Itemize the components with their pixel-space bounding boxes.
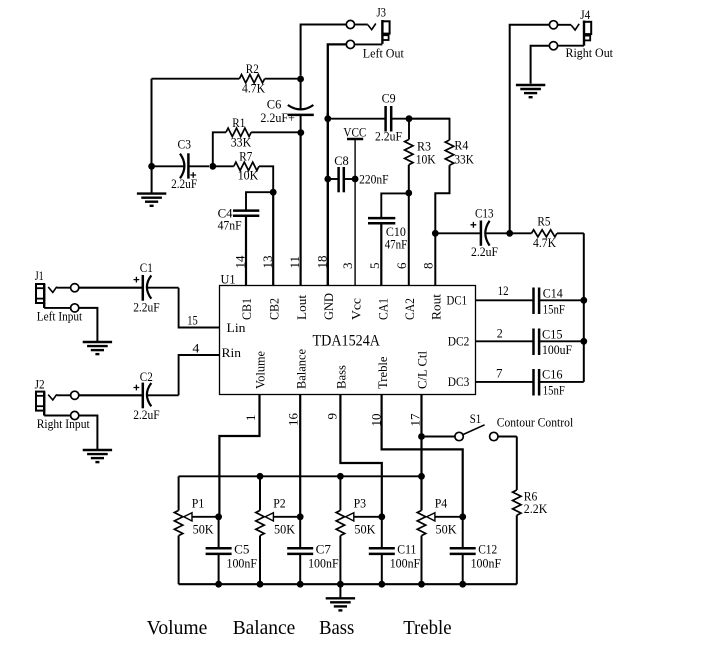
junction C13/R5/J4 tip	[506, 230, 513, 237]
label C13 polarity +	[471, 222, 477, 228]
svg-text:Vcc: Vcc	[348, 298, 363, 320]
svg-text:47nF: 47nF	[385, 237, 408, 252]
svg-text:100uF: 100uF	[542, 342, 572, 357]
svg-text:18: 18	[314, 256, 329, 269]
junction C15/right rail	[580, 338, 587, 345]
connector J2 (right input jack)	[36, 391, 79, 419]
svg-text:11: 11	[287, 256, 302, 269]
svg-text:50K: 50K	[354, 522, 376, 537]
svg-text:C12: C12	[478, 542, 497, 557]
junction P3 wiper/C11	[378, 513, 385, 520]
wire J4 tip down to C13/R5 node	[510, 25, 550, 234]
wire J1 sleeve to ground	[79, 308, 98, 342]
resistor R6	[513, 437, 521, 585]
resistor R2	[152, 75, 301, 83]
ground J4	[516, 85, 545, 97]
junction bottom rail/C11	[378, 581, 385, 588]
ground C3	[137, 194, 166, 206]
svg-text:Lin: Lin	[227, 320, 247, 335]
wire Lout column to pin 11	[300, 133, 302, 286]
svg-text:R2: R2	[246, 61, 259, 76]
svg-text:220nF: 220nF	[359, 172, 389, 187]
svg-text:R4: R4	[454, 138, 468, 153]
svg-text:47nF: 47nF	[218, 218, 242, 233]
svg-text:P2: P2	[273, 496, 286, 511]
svg-text:Treble: Treble	[403, 618, 451, 639]
svg-text:4.7K: 4.7K	[533, 235, 557, 250]
svg-text:2.2uF: 2.2uF	[171, 176, 197, 191]
svg-text:DC1: DC1	[447, 293, 468, 308]
svg-text:R7: R7	[239, 149, 252, 164]
wire pin 12 DC1	[476, 299, 534, 301]
junction bottom rail/P3/ground	[337, 581, 344, 588]
capacitor C11 (100nF)	[369, 517, 395, 584]
svg-text:C1: C1	[140, 260, 153, 275]
wire GND rail to pin 18	[327, 113, 329, 286]
power VCC	[347, 139, 363, 286]
junction GND rail / C9 line	[324, 115, 331, 122]
svg-text:17: 17	[408, 413, 423, 427]
junction bottom rail/C12	[459, 581, 466, 588]
capacitor C8 (220nF)	[328, 167, 355, 192]
svg-text:C16: C16	[542, 367, 563, 382]
capacitor C6 (2.2uF polarized)	[288, 79, 314, 133]
connector J3 (left output jack)	[346, 20, 389, 49]
svg-text:10: 10	[368, 414, 383, 427]
potentiometer P1	[174, 476, 218, 584]
svg-text:33K: 33K	[454, 152, 474, 167]
label C1 polarity +	[134, 277, 140, 283]
capacitor C5 (100nF)	[206, 517, 232, 584]
svg-text:C11: C11	[397, 542, 416, 557]
capacitor C7 (100nF)	[287, 517, 313, 584]
capacitor C4 (47nF)	[233, 211, 259, 286]
svg-text:Bass: Bass	[334, 365, 349, 389]
svg-text:2.2uF: 2.2uF	[375, 129, 402, 144]
svg-text:C13: C13	[475, 206, 494, 221]
svg-text:R5: R5	[537, 214, 550, 229]
junction Lout/R2/J3 tip	[297, 76, 304, 83]
capacitor C1 (2.2uF polarized)	[79, 275, 179, 301]
svg-text:C/L Ctl: C/L Ctl	[415, 351, 430, 389]
svg-text:R1: R1	[232, 115, 245, 130]
wire pot top rail	[179, 475, 422, 477]
svg-text:DC2: DC2	[448, 334, 470, 349]
svg-text:Bass: Bass	[319, 618, 354, 639]
svg-text:33K: 33K	[231, 135, 252, 150]
svg-text:50K: 50K	[436, 522, 458, 537]
svg-text:50K: 50K	[274, 522, 296, 537]
wire C3 to ground	[151, 166, 153, 193]
junction C9/R3 top	[406, 115, 413, 122]
svg-text:15: 15	[187, 313, 198, 328]
svg-text:Treble: Treble	[375, 356, 390, 389]
wire pin 2 DC2	[476, 340, 534, 342]
svg-text:DC3: DC3	[448, 374, 470, 389]
svg-text:C8: C8	[334, 153, 349, 168]
wire J3 tip to Lout node	[301, 25, 347, 76]
connector J4 (right output jack)	[549, 21, 591, 50]
svg-text:15nF: 15nF	[543, 302, 565, 317]
svg-text:100nF: 100nF	[308, 556, 339, 571]
svg-text:C9: C9	[382, 91, 396, 106]
wire pin 1 Volume to wiper column	[219, 395, 259, 517]
svg-text:Balance: Balance	[293, 349, 308, 389]
svg-text:100nF: 100nF	[390, 556, 421, 571]
svg-text:15nF: 15nF	[543, 383, 565, 398]
svg-text:5: 5	[367, 263, 382, 270]
wire pin 10 Treble to wiper column	[382, 395, 463, 517]
svg-text:1: 1	[243, 415, 258, 422]
svg-text:Volume: Volume	[253, 351, 268, 389]
svg-text:13: 13	[260, 256, 275, 269]
junction pin17/S1 branch	[418, 433, 425, 440]
svg-text:16: 16	[286, 413, 301, 427]
potentiometer P4	[417, 476, 462, 584]
capacitor C14 (15nF)	[534, 288, 584, 315]
svg-text:10K: 10K	[416, 152, 437, 167]
connector J1 (left input jack)	[36, 284, 79, 312]
capacitor C3 (2.2uF polarized)	[152, 153, 209, 178]
wire pot bottom rail	[179, 583, 517, 585]
resistor R3	[405, 119, 413, 286]
capacitor C12 (100nF)	[450, 517, 476, 584]
svg-text:Right Out: Right Out	[566, 45, 614, 60]
svg-text:4: 4	[192, 341, 200, 356]
svg-text:CA2: CA2	[402, 298, 417, 320]
svg-text:J1: J1	[35, 268, 44, 283]
svg-text:4.7K: 4.7K	[242, 81, 266, 96]
svg-text:CB2: CB2	[267, 298, 282, 320]
svg-text:6: 6	[394, 262, 409, 269]
svg-text:100nF: 100nF	[471, 556, 502, 571]
svg-text:TDA1524A: TDA1524A	[313, 332, 381, 349]
junction C3/ground/R2	[148, 163, 155, 170]
wire C1 to pin 15 Lin	[179, 288, 220, 328]
junction Rout column / C13 line	[432, 230, 439, 237]
svg-text:2.2uF+: 2.2uF+	[260, 110, 295, 125]
svg-text:J4: J4	[580, 7, 590, 22]
svg-text:CB1: CB1	[239, 298, 254, 320]
svg-text:C7: C7	[316, 542, 332, 557]
svg-text:C14: C14	[543, 286, 563, 301]
wire C2 to pin 4 Rin	[179, 355, 220, 395]
svg-text:2.2uF: 2.2uF	[133, 300, 160, 315]
junction bottom rail/P4	[418, 581, 425, 588]
capacitor C10 (47nF)	[368, 193, 409, 285]
svg-text:7: 7	[496, 366, 503, 381]
junction P2 wiper/C7	[297, 513, 304, 520]
svg-text:P4: P4	[435, 496, 448, 511]
resistor R1	[213, 128, 301, 166]
wire R2 left down to C3 node	[151, 79, 153, 167]
junction C3/R1/R7	[209, 163, 216, 170]
svg-text:GND: GND	[321, 293, 336, 320]
svg-text:J3: J3	[377, 5, 387, 20]
wire junction to C4	[246, 192, 273, 210]
svg-text:8: 8	[420, 263, 435, 270]
capacitor C15 (100uF)	[534, 329, 584, 356]
junction P1 wiper/C5	[215, 513, 222, 520]
svg-text:Contour Control: Contour Control	[497, 415, 574, 430]
svg-text:C3: C3	[178, 137, 192, 152]
wire J3 sleeve to GND rail	[328, 44, 347, 115]
svg-text:C5: C5	[234, 542, 249, 557]
svg-text:CA1: CA1	[375, 298, 390, 320]
junction R3/C10/pin6	[405, 190, 412, 197]
wire J4 sleeve to ground	[531, 46, 550, 84]
ground J1	[83, 342, 112, 354]
svg-text:2.2uF: 2.2uF	[133, 407, 160, 422]
junction R7/C4/pin13	[270, 189, 277, 196]
capacitor C2 (2.2uF polarized)	[79, 383, 179, 409]
potentiometer P3	[336, 476, 382, 584]
svg-text:Rin: Rin	[222, 345, 242, 360]
ground bottom rail	[326, 598, 355, 610]
wire J2 sleeve to ground	[79, 416, 98, 450]
junction P4 wiper/C12	[459, 513, 466, 520]
junction bottom rail/P2	[257, 581, 264, 588]
resistor R7	[213, 162, 273, 192]
svg-text:U1: U1	[221, 272, 236, 287]
wire junction to pin 13	[272, 192, 274, 285]
wire right rail	[583, 233, 585, 382]
capacitor C9 (2.2uF)	[328, 106, 450, 132]
svg-text:Lout: Lout	[294, 295, 309, 320]
svg-text:P3: P3	[354, 496, 367, 511]
potentiometer P2	[256, 476, 300, 584]
svg-text:Rout: Rout	[429, 294, 444, 320]
svg-text:2.2K: 2.2K	[524, 501, 548, 516]
wire pin 16 Balance to wiper column	[299, 395, 301, 517]
wire pin 9 Bass to wiper column	[340, 395, 381, 517]
svg-text:9: 9	[325, 413, 340, 420]
resistor R4	[409, 119, 454, 286]
capacitor C16 (15nF)	[534, 369, 584, 396]
junction C6/R1/Lout	[297, 129, 304, 136]
svg-text:10K: 10K	[238, 168, 259, 183]
resistor R5	[510, 230, 584, 237]
svg-text:2: 2	[497, 326, 503, 341]
junction C8/VCC line	[352, 176, 359, 183]
op-amp U1 TDA1524A body	[220, 286, 476, 395]
junction C8/GND rail	[324, 176, 331, 183]
switch S1	[422, 425, 517, 441]
svg-text:Right Input: Right Input	[37, 416, 90, 431]
svg-text:C15: C15	[542, 327, 563, 342]
wire pin 17 C/L Ctl down	[420, 395, 422, 511]
junction bottom rail/C7	[297, 581, 304, 588]
svg-text:S1: S1	[470, 411, 482, 426]
wire pin 7 DC3	[476, 381, 534, 383]
svg-text:C2: C2	[140, 369, 153, 384]
label C3 polarity +	[190, 172, 196, 178]
svg-text:P1: P1	[192, 496, 205, 511]
svg-text:Left Out: Left Out	[363, 46, 404, 61]
junction rail/P2	[257, 473, 264, 480]
label C2 polarity +	[134, 385, 140, 391]
svg-text:J2: J2	[35, 377, 45, 392]
svg-text:50K: 50K	[193, 522, 215, 537]
junction bottom rail/C5	[215, 581, 222, 588]
svg-text:Left Input: Left Input	[37, 309, 83, 324]
junction C14/right rail	[580, 297, 587, 304]
svg-text:2.2uF: 2.2uF	[471, 244, 498, 259]
ground J2	[83, 450, 112, 462]
svg-text:Balance: Balance	[233, 618, 296, 639]
junction rail/pin17/P4	[418, 473, 425, 480]
junction rail/P3	[337, 473, 344, 480]
svg-text:100nF: 100nF	[227, 556, 258, 571]
svg-text:3: 3	[340, 263, 355, 270]
svg-text:VCC: VCC	[343, 125, 366, 140]
svg-text:14: 14	[233, 255, 248, 269]
capacitor C13 (2.2uF polarized)	[435, 221, 509, 246]
svg-text:Volume: Volume	[147, 618, 208, 639]
svg-text:12: 12	[498, 283, 509, 298]
wire bottom rail to ground	[339, 584, 341, 597]
